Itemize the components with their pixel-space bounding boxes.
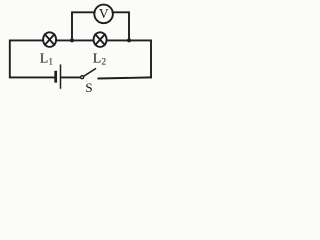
svg-text:V: V	[99, 6, 109, 21]
svg-text:S: S	[85, 80, 92, 95]
